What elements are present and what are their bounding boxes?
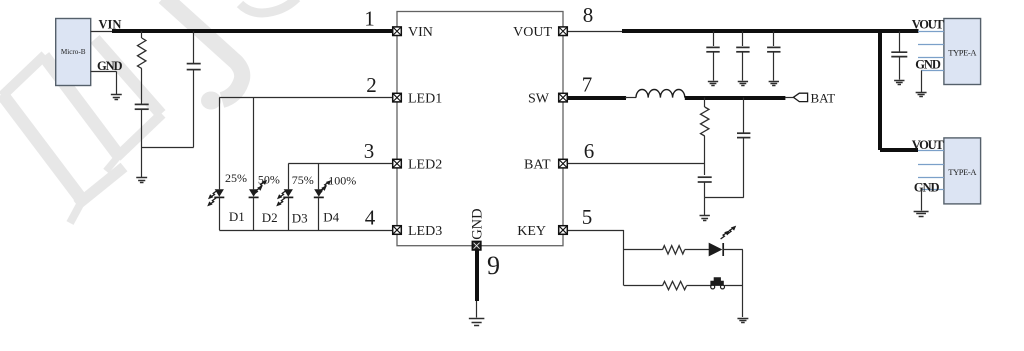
svg-text:6: 6 <box>584 139 595 163</box>
svg-text:VOUT: VOUT <box>912 18 945 32</box>
svg-text:GND: GND <box>914 181 940 195</box>
svg-text:KEY: KEY <box>517 224 546 239</box>
svg-text:VOUT: VOUT <box>912 138 945 152</box>
svg-text:D4: D4 <box>323 209 339 224</box>
svg-text:BAT: BAT <box>524 158 551 173</box>
svg-text:D1: D1 <box>229 209 245 224</box>
svg-text:1: 1 <box>364 7 375 31</box>
svg-text:7: 7 <box>582 73 593 97</box>
svg-text:8: 8 <box>583 3 594 27</box>
svg-text:LED1: LED1 <box>408 92 442 107</box>
svg-text:TYPE-A: TYPE-A <box>948 167 977 177</box>
svg-text:D3: D3 <box>292 210 308 225</box>
svg-text:100%: 100% <box>328 173 356 187</box>
svg-text:50%: 50% <box>258 172 280 186</box>
svg-text:LED3: LED3 <box>408 224 442 239</box>
svg-text:GND: GND <box>470 208 486 239</box>
svg-text:5: 5 <box>582 205 593 229</box>
svg-text:SW: SW <box>528 92 550 107</box>
svg-text:LED2: LED2 <box>408 158 442 173</box>
svg-text:Micro-B: Micro-B <box>61 48 86 56</box>
svg-text:25%: 25% <box>225 171 247 185</box>
svg-text:D2: D2 <box>262 210 278 225</box>
svg-text:TYPE-A: TYPE-A <box>948 48 977 58</box>
svg-text:VIN: VIN <box>408 25 433 40</box>
svg-text:GND: GND <box>915 58 941 72</box>
svg-text:BAT: BAT <box>811 90 836 105</box>
svg-text:9: 9 <box>487 251 500 280</box>
svg-text:3: 3 <box>364 139 375 163</box>
svg-text:GND: GND <box>97 59 123 73</box>
svg-text:2: 2 <box>366 73 377 97</box>
svg-text:4: 4 <box>365 206 376 230</box>
svg-text:75%: 75% <box>292 173 314 187</box>
svg-text:VOUT: VOUT <box>513 25 552 40</box>
